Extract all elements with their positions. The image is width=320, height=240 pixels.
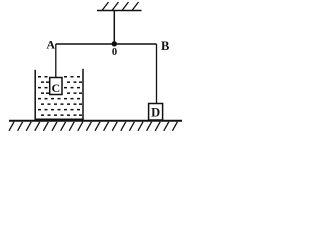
left string A to C (55, 44, 57, 78)
right string B to D (156, 44, 158, 104)
row y82 left gap (41, 81, 44, 83)
svg-text:C: C (51, 81, 60, 95)
svg-text:A: A (46, 38, 55, 52)
row y76.5 left gap (38, 76, 41, 78)
row y104 full offset (41, 103, 44, 105)
ceiling hatch 4 (132, 2, 139, 11)
svg-text:D: D (151, 105, 160, 119)
block D (149, 104, 163, 121)
ground line (9, 120, 182, 122)
ceiling hatch 2 (112, 2, 119, 11)
row y98.5 full (38, 98, 41, 100)
row y82 right gap (67, 81, 70, 83)
container right wall (82, 69, 84, 120)
row y93 left gap (41, 92, 44, 94)
container bottom (35, 118, 84, 120)
container left wall (34, 70, 36, 120)
row y87.5 left gap (38, 87, 41, 89)
ceiling line (97, 10, 142, 12)
beam AB (56, 43, 157, 45)
svg-text:0: 0 (112, 47, 117, 58)
rod from ceiling to pivot O (113, 11, 115, 44)
row y87.5 right gap (64, 87, 67, 89)
svg-text:B: B (161, 39, 169, 53)
liquid stipple (38, 76, 82, 116)
row y109.5 full (38, 109, 41, 111)
pivot dot O (112, 41, 117, 46)
ceiling hatch 3 (122, 2, 129, 11)
row y115 full offset (41, 114, 44, 116)
row y76.5 right gap (64, 76, 67, 78)
block C (50, 78, 62, 95)
ceiling hatch 1 (102, 2, 109, 11)
ground hatches (9, 122, 177, 131)
row y93 right gap (67, 92, 70, 94)
